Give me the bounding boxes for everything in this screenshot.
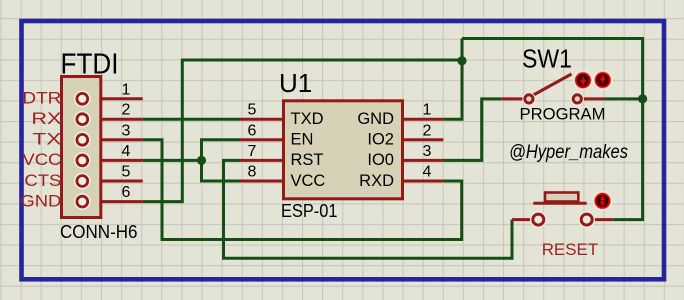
pin 4 RXD line (403, 180, 443, 183)
svg-text:5: 5 (248, 102, 257, 119)
pin 1 GND line (403, 118, 443, 121)
switch SW1 left pin (502, 97, 524, 100)
svg-text:EN: EN (291, 131, 314, 149)
pin circle 6 (74, 193, 91, 210)
svg-text:4: 4 (423, 164, 432, 181)
svg-text:1: 1 (122, 81, 131, 98)
svg-text:2: 2 (122, 102, 131, 119)
pin circle 3 (74, 132, 91, 149)
svg-text:5: 5 (122, 164, 131, 181)
pushbutton RESET left terminal (530, 211, 547, 228)
pin RX line (102, 118, 143, 121)
connector CONN-H6 body (62, 77, 101, 218)
pin circle 2 (74, 111, 91, 128)
wire SW1 right terminal to GND rail (605, 97, 643, 100)
pin 5 TXD line (240, 118, 283, 121)
svg-text:GND: GND (20, 191, 61, 210)
junction dot GND at SW1 (638, 94, 647, 103)
switch actuator up-arrow button (593, 70, 613, 90)
svg-text:VCC: VCC (291, 172, 326, 190)
svg-text:4: 4 (122, 143, 131, 160)
pin 6 EN line (240, 138, 283, 141)
pin 3 IO0 line (403, 159, 443, 162)
svg-text:IO0: IO0 (367, 151, 394, 169)
switch SW1 left terminal (522, 92, 535, 105)
junction dot GND at U1 branch (457, 56, 466, 65)
svg-text:3: 3 (423, 143, 432, 160)
svg-text:7: 7 (248, 143, 257, 160)
svg-text:GND: GND (357, 110, 394, 128)
svg-text:RESET: RESET (542, 240, 599, 259)
pushbutton RESET right pin (593, 218, 613, 221)
svg-text:2: 2 (423, 122, 432, 139)
pushbutton RESET right terminal (578, 211, 595, 228)
switch actuator down-arrow button (573, 70, 593, 90)
junction dot VCC node (197, 156, 206, 165)
pushbutton actuator up-down button (593, 191, 613, 211)
wire U1 IO0 to SW1 (443, 99, 501, 160)
switch SW1 right terminal (571, 92, 584, 105)
pin VCC line (102, 159, 143, 162)
pin circle 4 (74, 152, 91, 169)
pin 7 RST line (240, 159, 283, 162)
svg-text:3: 3 (122, 122, 131, 139)
svg-text:RST: RST (291, 151, 324, 169)
pin GND line (102, 200, 143, 203)
svg-text:CONN-H6: CONN-H6 (60, 222, 138, 242)
svg-text:6: 6 (248, 122, 257, 139)
pin TX line (102, 138, 143, 141)
pin CTS line (102, 180, 143, 183)
svg-text:TXD: TXD (291, 110, 324, 128)
pin 8 VCC line (240, 180, 283, 183)
pushbutton RESET cap (545, 193, 578, 202)
wire TX to U1 RXD (143, 140, 462, 240)
svg-text:@Hyper_makes: @Hyper_makes (509, 142, 628, 163)
pin circle 1 (74, 91, 91, 108)
svg-text:DTR: DTR (22, 89, 61, 108)
svg-text:PROGRAM: PROGRAM (520, 105, 606, 124)
svg-text:IO2: IO2 (367, 131, 394, 149)
svg-text:1: 1 (423, 102, 432, 119)
wire net VCC: FTDI VCC to junction (143, 159, 202, 162)
wire GND riser from FTDI (143, 60, 462, 202)
IC U1 body (284, 101, 403, 199)
wire RX to U1 TXD (143, 118, 240, 121)
switch SW1 right pin (583, 97, 606, 100)
svg-text:6: 6 (122, 184, 131, 201)
wire junction to U1 EN and VCC pins (202, 140, 241, 181)
svg-text:U1: U1 (279, 68, 312, 98)
pin DTR line (102, 97, 143, 100)
svg-text:RXD: RXD (359, 172, 394, 190)
svg-text:TX: TX (32, 130, 61, 149)
svg-text:ESP-01: ESP-01 (281, 201, 338, 221)
svg-text:RX: RX (31, 109, 61, 128)
wire GND top run to right side and down to RESET (462, 39, 643, 220)
wire U1 RST to RESET button (224, 160, 513, 258)
pushbutton RESET left pin (512, 218, 532, 221)
pin circle 5 (74, 173, 91, 190)
pin 2 IO2 line (403, 138, 443, 141)
svg-text:SW1: SW1 (522, 43, 572, 73)
switch SW1 lever (533, 74, 572, 96)
svg-text:8: 8 (248, 164, 257, 181)
pushbutton RESET contact bar (533, 202, 586, 205)
wire GND branch to U1 GND pin (443, 39, 462, 120)
svg-text:VCC: VCC (22, 150, 61, 169)
svg-text:CTS: CTS (24, 171, 61, 190)
